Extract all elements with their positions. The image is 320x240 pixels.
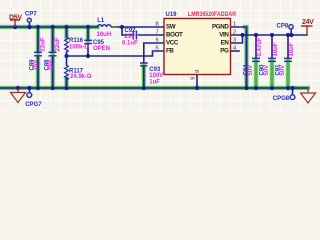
- wire C95 leads core: [87, 27, 89, 56]
- wire C88 leads halo: [50, 27, 55, 88]
- svg-text:8: 8: [155, 21, 158, 27]
- wire L1 right pin segment: [111, 26, 119, 28]
- svg-text:9: 9: [195, 70, 201, 73]
- wire R116 top lead halo: [64, 27, 69, 37]
- wire C93 bottom lead: [143, 66, 145, 88]
- wire C88 leads core: [52, 27, 54, 88]
- wire top rail core: [0, 26, 164, 28]
- node C90 bottom: [270, 86, 274, 90]
- svg-text:C93: C93: [149, 67, 161, 73]
- svg-text:0.1uF: 0.1uF: [122, 41, 138, 47]
- svg-text:2: 2: [233, 29, 236, 35]
- wire C89 leads core: [37, 27, 39, 88]
- svg-text:25V: 25V: [125, 34, 136, 40]
- capacitor C95: [84, 40, 92, 43]
- svg-text:10uH: 10uH: [97, 32, 112, 38]
- wire CP7 stem: [29, 22, 31, 27]
- svg-text:L1: L1: [97, 18, 105, 24]
- wire VCC to C93: [144, 43, 164, 63]
- svg-text:25V: 25V: [48, 60, 54, 71]
- node PGND bottom: [244, 86, 248, 90]
- svg-text:10uF: 10uF: [273, 42, 279, 56]
- svg-text:10uF: 10uF: [289, 42, 295, 56]
- node C95 bottom: [86, 54, 90, 58]
- node R116 top: [64, 25, 68, 29]
- capacitor C88: [49, 52, 57, 56]
- node CP8 tap: [289, 33, 293, 37]
- node C89 bottom: [36, 86, 40, 90]
- wire PGND pin1: [231, 27, 247, 88]
- wire CPG8 stem: [292, 88, 294, 95]
- capacitor C90: [268, 58, 276, 61]
- wire VIN run: [231, 34, 308, 36]
- svg-text:VCC: VCC: [166, 40, 179, 47]
- wire bottom rail core: [0, 87, 308, 89]
- testpoint CP8: [289, 25, 293, 29]
- svg-text:EN: EN: [221, 40, 230, 47]
- svg-text:D5V: D5V: [9, 14, 22, 21]
- resistor R116: [65, 37, 69, 52]
- node C91 bottom: [286, 86, 290, 90]
- wire CP8 stem: [290, 29, 292, 35]
- svg-text:R116: R116: [69, 38, 84, 44]
- wire C92 branch: [122, 27, 164, 35]
- wire FB run: [67, 51, 165, 56]
- svg-text:SW: SW: [166, 24, 176, 31]
- capacitor C84: [252, 58, 260, 61]
- capacitor C92: [133, 31, 136, 40]
- wire R116 lead core: [66, 27, 68, 56]
- node SW/C92: [120, 25, 124, 29]
- svg-text:1: 1: [233, 21, 236, 27]
- ground GND left: [11, 88, 26, 103]
- node C90 top: [270, 33, 274, 37]
- capacitor C91: [284, 58, 292, 61]
- node CPG8 tap: [290, 86, 294, 90]
- wire C95 top lead halo: [86, 27, 91, 40]
- svg-text:25V: 25V: [33, 60, 39, 71]
- svg-text:50V: 50V: [264, 65, 270, 76]
- wire C93 bottom lead halo: [142, 66, 147, 88]
- junction dots: [13, 25, 295, 90]
- wire D5V top rail halo: [0, 25, 98, 30]
- svg-text:1uF: 1uF: [149, 80, 160, 86]
- node C88 bottom: [51, 86, 55, 90]
- wire R117 lead core: [66, 56, 68, 88]
- wire right cap bottom leads halo: [256, 61, 288, 88]
- testpoint CPG7: [27, 93, 32, 98]
- testpoint CP7: [27, 18, 31, 22]
- node C93 bottom: [142, 86, 146, 90]
- svg-text:24.9k-D: 24.9k-D: [70, 74, 92, 80]
- svg-text:PG: PG: [220, 48, 229, 55]
- svg-text:CP7: CP7: [25, 11, 37, 17]
- wire CPG7 stem: [29, 88, 31, 93]
- wire GND bottom rail halo: [0, 86, 308, 91]
- svg-text:CPG8: CPG8: [273, 96, 290, 102]
- node R117 bottom: [64, 86, 68, 90]
- svg-text:U19: U19: [166, 12, 178, 18]
- wire R117 bottom lead halo: [64, 79, 69, 89]
- node D5V power tap: [13, 25, 17, 29]
- navy wire cores: [0, 22, 308, 95]
- svg-text:5: 5: [155, 45, 158, 51]
- node CPG7 tap: [27, 86, 31, 90]
- svg-text:22uF: 22uF: [55, 37, 61, 51]
- wire PGND halo: [245, 27, 247, 88]
- wire EN tie: [231, 35, 243, 43]
- capacitor C89: [34, 52, 42, 56]
- power port D5V: [10, 20, 20, 27]
- capacitor C93: [140, 63, 148, 66]
- node C84 bottom: [254, 86, 258, 90]
- node VIN/EN tie: [240, 33, 244, 37]
- IC U19 LMR36520FADDAR body: [164, 19, 231, 75]
- node C88 top: [51, 25, 55, 29]
- svg-text:50V: 50V: [248, 65, 254, 76]
- green highlight halos for D5V and GND nets: [0, 27, 308, 88]
- wire right cap top leads: [256, 35, 288, 58]
- node GND stem left: [16, 86, 20, 90]
- inductor L1: [98, 25, 112, 27]
- svg-text:BOOT: BOOT: [166, 32, 183, 39]
- svg-text:100V: 100V: [149, 73, 163, 79]
- node C84 top: [254, 33, 258, 37]
- node FB junction: [64, 54, 68, 58]
- wire C89 leads halo: [36, 27, 41, 88]
- svg-text:LMR36520FADDAR: LMR36520FADDAR: [188, 11, 236, 18]
- svg-text:CPG7: CPG7: [25, 102, 42, 108]
- svg-text:22uF: 22uF: [40, 37, 46, 51]
- svg-text:FB: FB: [166, 48, 174, 55]
- testpoint CPG8: [290, 95, 295, 100]
- node C91 top: [286, 33, 290, 37]
- node C95 top: [86, 25, 90, 29]
- ground GND right: [301, 88, 316, 103]
- svg-text:50V: 50V: [280, 65, 286, 76]
- svg-text:PGND: PGND: [212, 24, 229, 31]
- wire pad pin9 stub: [196, 75, 198, 89]
- node C89 top: [36, 25, 40, 29]
- svg-text:OPEN: OPEN: [93, 46, 110, 52]
- wire PG stub: [231, 50, 240, 52]
- svg-text:100k-D: 100k-D: [69, 45, 89, 51]
- svg-text:9: 9: [191, 77, 197, 80]
- resistor R117: [65, 65, 69, 80]
- svg-text:3: 3: [233, 37, 236, 43]
- node pad pin9 bottom: [195, 86, 199, 90]
- svg-text:6: 6: [155, 37, 158, 43]
- svg-text:VIN: VIN: [219, 32, 229, 39]
- power port 24V: [301, 26, 313, 35]
- node CP7 tap: [27, 25, 31, 29]
- svg-text:CP8: CP8: [277, 23, 289, 29]
- svg-text:24V: 24V: [302, 19, 314, 26]
- svg-text:7: 7: [155, 29, 158, 35]
- svg-text:0.47uF: 0.47uF: [257, 37, 263, 56]
